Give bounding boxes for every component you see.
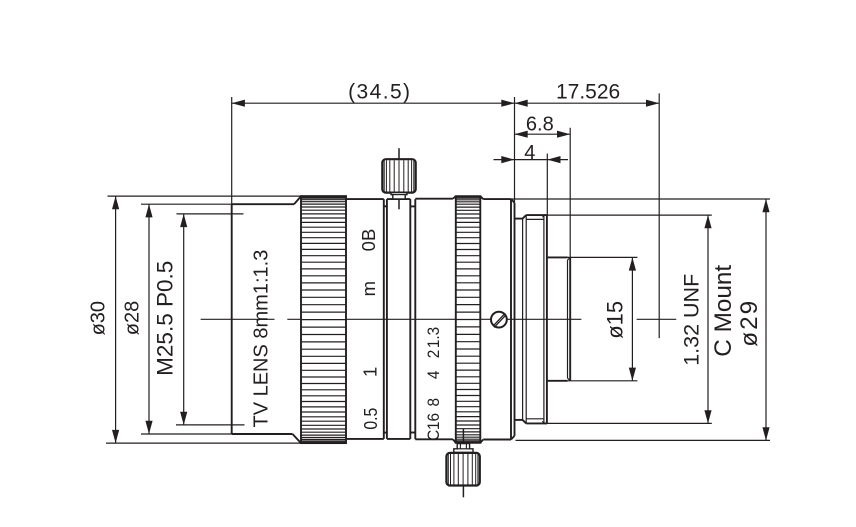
svg-text:0.5: 0.5 xyxy=(360,408,382,430)
svg-text:ø28: ø28 xyxy=(122,301,144,335)
focus lock thumbscrew (top) xyxy=(382,148,415,209)
svg-text:m: m xyxy=(358,281,379,296)
dimension 6.8 xyxy=(515,113,571,257)
svg-text:ø29: ø29 xyxy=(736,299,763,347)
focus scale ring xyxy=(346,199,384,439)
svg-text:8: 8 xyxy=(424,398,443,407)
svg-text:2: 2 xyxy=(424,350,443,359)
C-mount thread 1-32 UNF xyxy=(515,214,547,424)
focus lock ring xyxy=(387,199,410,439)
groove between focus ring and lock ring xyxy=(384,199,387,439)
dimension C Mount diameter 29 xyxy=(511,199,770,440)
groove between lock ring and aperture ring xyxy=(410,199,415,439)
svg-text:1.3: 1.3 xyxy=(424,327,443,348)
svg-text:4: 4 xyxy=(524,142,535,164)
svg-text:ø30: ø30 xyxy=(88,301,110,335)
svg-text:C Mount: C Mount xyxy=(710,265,737,357)
dimension 1.32 UNF thread xyxy=(547,215,712,423)
svg-text:TV LENS 8mm1:1.3: TV LENS 8mm1:1.3 xyxy=(250,250,272,428)
svg-text:0B: 0B xyxy=(358,229,379,252)
set screw on barrel xyxy=(491,312,507,328)
dimension M25.5 P0.5 filter thread xyxy=(153,214,245,425)
front barrel xyxy=(232,196,301,443)
dimension 4 xyxy=(494,142,569,215)
iris lock thumbscrew (bottom) xyxy=(446,429,479,497)
dimension 17.526 xyxy=(515,80,660,338)
svg-text:1: 1 xyxy=(360,367,381,377)
aperture scale labels xyxy=(424,327,443,441)
svg-text:4: 4 xyxy=(424,371,443,380)
svg-text:17.526: 17.526 xyxy=(556,80,620,103)
dimension diameter 28 xyxy=(122,204,232,434)
aperture scale ring xyxy=(415,196,456,443)
dimension (34.5) xyxy=(232,80,515,204)
svg-text:ø15: ø15 xyxy=(603,301,628,339)
focus scale labels xyxy=(358,229,382,430)
dimension diameter 15 xyxy=(547,257,638,380)
iris knurled ring xyxy=(456,196,483,443)
rear element tube xyxy=(547,257,570,380)
svg-text:1.32 UNF: 1.32 UNF xyxy=(679,274,703,366)
svg-text:(34.5): (34.5) xyxy=(348,80,411,103)
svg-text:6.8: 6.8 xyxy=(526,113,554,135)
optical axis center line xyxy=(201,318,677,320)
svg-text:16: 16 xyxy=(424,413,443,430)
svg-text:C: C xyxy=(424,429,443,440)
rear barrel xyxy=(483,199,511,439)
mount flange face xyxy=(511,199,515,439)
focus knurled ring xyxy=(301,196,346,443)
dimension diameter 30 xyxy=(88,196,301,443)
svg-text:M25.5 P0.5: M25.5 P0.5 xyxy=(153,261,178,376)
